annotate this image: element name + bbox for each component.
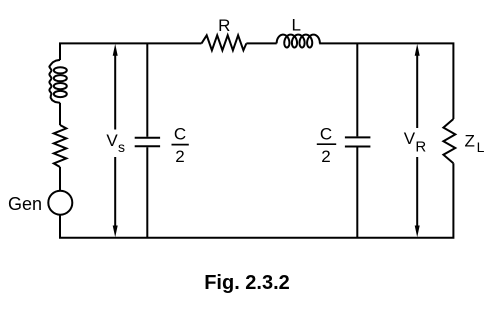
svg-text:2: 2 [175,147,184,166]
svg-text:s: s [118,139,125,155]
svg-text:Z: Z [465,131,475,150]
svg-text:C: C [320,125,332,144]
svg-text:R: R [218,16,230,35]
svg-text:Fig. 2.3.2: Fig. 2.3.2 [204,272,290,294]
svg-text:C: C [174,125,186,144]
svg-text:2: 2 [321,147,330,166]
svg-text:V: V [404,129,416,148]
svg-text:L: L [477,139,485,155]
svg-text:Gen: Gen [8,194,42,214]
svg-text:R: R [415,138,426,155]
svg-text:V: V [106,131,118,150]
svg-text:L: L [291,16,300,35]
